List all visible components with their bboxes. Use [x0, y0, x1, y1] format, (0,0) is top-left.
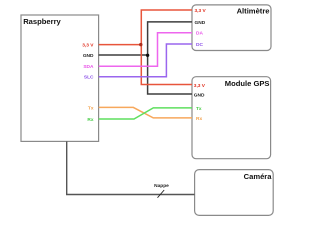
svg-text:GND: GND — [194, 92, 205, 98]
svg-text:Module GPS: Module GPS — [225, 79, 270, 88]
svg-text:GND: GND — [83, 53, 94, 59]
svg-text:Tx: Tx — [88, 105, 94, 111]
module Caméra (box) — [195, 170, 274, 216]
wire GND junction to Altimètre (black) — [148, 22, 192, 55]
module Module GPS (box) — [192, 77, 271, 159]
wire 3,3 V junction to Module GPS (red) — [141, 45, 192, 85]
wire GND junction to Module GPS (black) — [148, 55, 192, 94]
svg-text:Altimètre: Altimètre — [237, 7, 270, 16]
svg-text:Rx: Rx — [87, 117, 93, 123]
svg-text:3,3 V: 3,3 V — [195, 8, 207, 14]
wire Nappe Raspberry to Caméra (gray) — [67, 141, 195, 194]
svg-text:Rx: Rx — [196, 116, 202, 122]
svg-text:DA: DA — [196, 31, 203, 37]
wire Rx Raspberry to Module GPS Tx (green) — [99, 108, 192, 119]
svg-text:Raspberry: Raspberry — [23, 17, 61, 26]
junction node GND (black dot) — [146, 54, 149, 57]
bus slash mark on Nappe wire — [158, 190, 165, 198]
module Altimètre (box) — [192, 5, 271, 51]
svg-text:SDA: SDA — [83, 64, 94, 70]
wire SDA Raspberry to Altimètre DA (magenta) — [99, 33, 192, 66]
svg-text:Tx: Tx — [196, 106, 202, 112]
svg-text:3,3 V: 3,3 V — [82, 42, 94, 48]
wire GND Raspberry to junction (black) — [99, 54, 148, 56]
svg-text:Caméra: Caméra — [244, 172, 273, 181]
wire Tx Raspberry to Module GPS Rx (orange) — [99, 107, 192, 118]
svg-text:SLC: SLC — [84, 75, 94, 81]
wire SLC Raspberry to Altimètre DC (purple) — [99, 44, 192, 77]
svg-text:GND: GND — [195, 20, 206, 26]
module Raspberry (box) — [21, 15, 99, 141]
junction node 3,3 V (red dot) — [139, 43, 142, 46]
svg-text:3,3 V: 3,3 V — [194, 83, 206, 89]
wire 3,3 V junction to Altimètre (red) — [141, 10, 192, 45]
svg-text:DC: DC — [196, 42, 203, 48]
svg-text:Nappe: Nappe — [154, 183, 169, 189]
wire 3,3 V Raspberry to junction (red) — [99, 44, 142, 46]
